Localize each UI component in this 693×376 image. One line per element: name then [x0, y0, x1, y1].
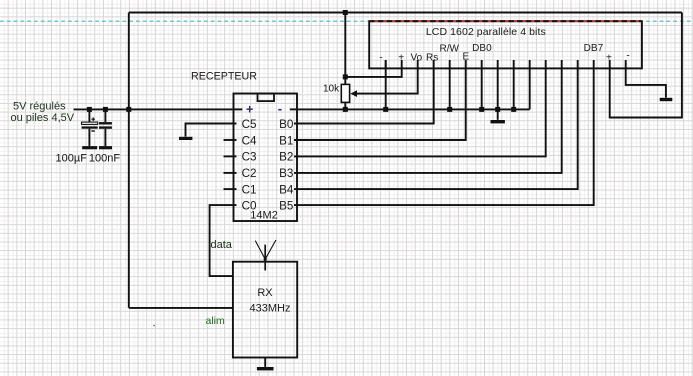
svg-text:E: E	[462, 52, 469, 63]
pin C5 label	[242, 118, 257, 131]
node cap1 top junction	[87, 107, 92, 112]
svg-text:DB7: DB7	[584, 43, 604, 54]
svg-text:100µF: 100µF	[56, 153, 88, 165]
wire ground bus from receiver - to DB3	[297, 108, 530, 110]
node pot top feed / +5V rail junction	[343, 10, 348, 15]
stray mark	[153, 325, 154, 326]
node pot bottom / ground bus junction	[343, 107, 348, 112]
svg-text:C2: C2	[242, 167, 257, 180]
pin label - (LED-)	[626, 51, 629, 62]
wire RX ground stub	[264, 358, 266, 367]
wire LCD LED- to ground	[626, 68, 666, 97]
svg-text:C3: C3	[242, 151, 257, 164]
pin C3 stub	[224, 155, 237, 157]
pin B1 label	[279, 134, 293, 147]
label 433MHz	[250, 302, 291, 314]
wire C0 data to RX	[210, 205, 237, 276]
antenna on RX	[255, 240, 276, 271]
wire +5V top rail	[129, 12, 682, 14]
svg-text:B1: B1	[279, 134, 293, 147]
svg-text:RX: RX	[257, 287, 273, 299]
pin + (receiver supply)	[246, 102, 254, 117]
LCD module U2 body	[369, 21, 642, 68]
pin C0 label	[242, 199, 257, 212]
pin C3 label	[242, 151, 257, 164]
label LCD 1602 parallèle 4 bits	[426, 26, 546, 38]
label RX	[257, 287, 273, 299]
wire LCD DB0 to ground bus	[481, 68, 483, 109]
ground (C5)	[179, 137, 192, 140]
pin label + (LED+)	[606, 52, 612, 63]
wire B3 to LCD DB5	[294, 68, 562, 172]
svg-text:Vo: Vo	[410, 52, 422, 63]
svg-text:B5: B5	[279, 199, 294, 212]
ground (under 100nF)	[99, 146, 112, 149]
wire LCD VDD + to pot top	[345, 68, 401, 77]
wire supply line 5V to receiver +	[74, 108, 234, 110]
label RECEPTEUR	[191, 70, 257, 82]
pin B4 label	[279, 183, 294, 196]
pin C4 label	[242, 134, 257, 147]
node supply/left-rail junction	[126, 107, 131, 112]
ground (bus, under DB1)	[491, 120, 505, 123]
pin + inside stub	[234, 108, 243, 110]
node cap2 top junction	[103, 107, 108, 112]
pin B3 label	[279, 167, 293, 180]
IC U1 receiver PICAXE 14M2 body	[234, 94, 298, 222]
svg-text:C1: C1	[242, 183, 257, 196]
svg-text:DB0: DB0	[472, 43, 492, 54]
wire B5 to LCD DB7	[294, 68, 594, 205]
capacitor C2 100nF	[99, 109, 112, 146]
pin label Rs	[426, 52, 438, 63]
svg-text:433MHz: 433MHz	[250, 302, 291, 314]
wire right vertical rail (+5V to LCD LED+)	[610, 13, 682, 118]
svg-text:RECEPTEUR: RECEPTEUR	[191, 70, 257, 82]
pin label - (VSS)	[379, 52, 382, 63]
svg-text:10k: 10k	[323, 83, 340, 94]
pin C1 label	[242, 183, 257, 196]
node LCD R/W / ground bus junction	[447, 107, 452, 112]
svg-text:B4: B4	[279, 183, 294, 196]
pin label DB0	[472, 43, 492, 54]
svg-text:data: data	[211, 239, 233, 251]
svg-text:5V régulés: 5V régulés	[13, 100, 66, 112]
label data	[211, 239, 233, 251]
wire B0 to LCD RS	[294, 68, 434, 123]
RX 433MHz module body	[233, 262, 297, 358]
svg-text:B2: B2	[279, 151, 293, 164]
label 10k	[323, 83, 340, 94]
pin B5 label	[279, 199, 294, 212]
pin C4 stub	[224, 139, 237, 141]
wire left vertical rail (+5V down to alim)	[128, 13, 130, 308]
wire LCD VSS - to ground bus	[385, 60, 387, 109]
pin label DB7	[584, 43, 604, 54]
svg-text:-: -	[278, 101, 282, 116]
svg-text:+: +	[246, 102, 254, 117]
page boundary dashed cyan line	[0, 20, 693, 22]
potentiometer 10k body	[341, 13, 349, 110]
wire LCD DB1 to ground bus and ground	[497, 68, 499, 119]
svg-text:-: -	[626, 51, 629, 62]
pin label Vo	[410, 52, 422, 63]
svg-text:C0: C0	[242, 199, 257, 212]
wire alim horizontal to RX	[129, 307, 233, 309]
svg-text:C5: C5	[242, 118, 257, 131]
ground (under 100µF)	[82, 146, 97, 149]
svg-text:R/W: R/W	[439, 43, 459, 54]
svg-text:B0: B0	[279, 118, 294, 131]
svg-text:LCD 1602 parallèle 4 bits: LCD 1602 parallèle 4 bits	[426, 26, 546, 38]
ground (RX)	[257, 367, 274, 370]
pin B0 label	[279, 118, 294, 131]
pin label R/W	[439, 43, 459, 54]
pin - (receiver ground)	[278, 101, 282, 116]
label 100µF	[56, 153, 88, 165]
ground (LCD LED-)	[660, 98, 673, 101]
svg-text:B3: B3	[279, 167, 293, 180]
node LCD DB2 / ground bus junction	[511, 107, 516, 112]
label alim	[206, 315, 226, 327]
pin B2 label	[279, 151, 293, 164]
svg-text:+: +	[606, 52, 612, 63]
node LCD DB0 / ground bus junction	[479, 107, 484, 112]
pin C2 stub	[224, 172, 237, 174]
wire LCD DB2 to ground bus	[513, 68, 515, 109]
node LCD VSS / ground bus junction	[383, 107, 388, 112]
wire B4 to LCD DB6	[294, 68, 578, 189]
wire LCD DB3 to ground bus end	[529, 68, 531, 109]
label 14M2	[250, 210, 278, 222]
svg-text:ou piles 4,5V: ou piles 4,5V	[11, 112, 75, 124]
pin C2 label	[242, 167, 257, 180]
svg-text:+: +	[398, 52, 404, 63]
wire LCD R/W to ground bus	[449, 68, 451, 109]
pin label E	[462, 52, 469, 63]
svg-text:100nF: 100nF	[89, 153, 120, 165]
capacitor C1 100µF (electrolytic)	[82, 109, 98, 146]
label 5V régulés ou piles 4,5V	[11, 100, 75, 124]
node pot feed / LCD VDD wire junction	[343, 74, 348, 79]
potentiometer wiper arrow to LCD Vo	[350, 68, 417, 97]
LCD pin stubs inside body	[386, 60, 626, 68]
wire B1 to LCD E	[294, 68, 466, 140]
wire B2 to LCD DB4	[294, 68, 546, 156]
svg-text:-: -	[379, 52, 382, 63]
pin - inside stub	[290, 108, 297, 110]
pin label + (VDD)	[398, 52, 404, 63]
svg-text:C4: C4	[242, 134, 257, 147]
svg-text:alim: alim	[206, 315, 226, 327]
wire C5 to ground	[186, 124, 237, 137]
label 100nF	[89, 153, 120, 165]
node LCD DB1 / ground bus junction	[495, 107, 500, 112]
svg-text:Rs: Rs	[426, 52, 438, 63]
pin C1 stub	[224, 188, 237, 190]
